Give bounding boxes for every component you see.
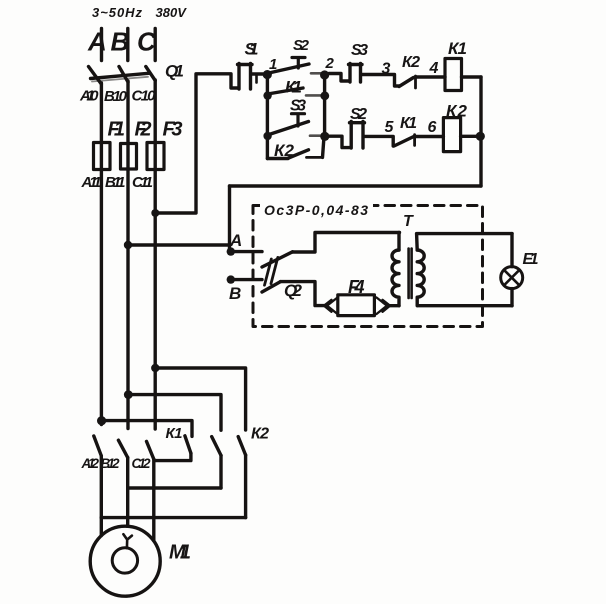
svg-text:Ос3Р-0,04-83: Ос3Р-0,04-83 (264, 202, 368, 218)
svg-text:S2: S2 (293, 37, 310, 54)
svg-text:В12: В12 (101, 456, 120, 471)
node crossover C junction (151, 364, 159, 372)
node bus junction (476, 132, 485, 141)
switch Q2 upper blade (262, 252, 293, 267)
wire Q2 to transformer primary top (293, 233, 400, 253)
pushbutton S2 blade (271, 64, 309, 73)
wire right bus (479, 77, 482, 186)
svg-text:F4: F4 (348, 277, 365, 297)
fuse F2 (121, 144, 137, 170)
coil K2 (443, 118, 460, 152)
wire crossover phase B to K2 middle pole (128, 395, 221, 431)
wire node 6 to coil K2 (415, 135, 444, 138)
node B phase line top (126, 29, 129, 61)
lighting unit dashed enclosure (253, 206, 483, 327)
wire S3 to K2 contact (362, 75, 399, 87)
contact K1 pole A blade (94, 436, 102, 456)
svg-text:А11: А11 (81, 174, 102, 191)
svg-text:F2: F2 (135, 119, 152, 141)
svg-text:К1: К1 (166, 425, 183, 442)
contact K2 NC blade (399, 78, 414, 87)
svg-text:М1: М1 (169, 542, 191, 564)
wire secondary bottom to lamp (418, 304, 512, 307)
svg-text:Q1: Q1 (165, 62, 184, 81)
contact K1 pole B blade (118, 440, 127, 457)
node 1a junction (263, 91, 271, 99)
svg-text:2: 2 (325, 55, 335, 72)
motor M1 star symbol (123, 534, 131, 548)
wire terminal B to switch Q2 (234, 278, 262, 281)
svg-text:4: 4 (429, 60, 439, 77)
svg-text:5: 5 (385, 119, 395, 136)
pushbutton S3 NO fixed stub (310, 134, 322, 137)
svg-text:6: 6 (428, 119, 437, 136)
fuse F3 (147, 143, 164, 170)
pushbutton S3 NO actuator (292, 114, 305, 126)
contact K1 self-hold fixed stub (306, 94, 321, 97)
svg-text:К1: К1 (448, 39, 467, 58)
node 1b junction (263, 132, 271, 140)
wire secondary top to lamp (417, 232, 512, 235)
svg-text:А: А (229, 231, 242, 250)
svg-text:С11: С11 (132, 174, 153, 191)
wire K2 aux riser (323, 138, 324, 157)
svg-text:С10: С10 (132, 88, 157, 105)
contact K2 middle pole blade (212, 437, 221, 456)
wire terminal A to switch Q2 (234, 250, 262, 253)
wire S1 to node 1 (252, 72, 264, 75)
contact K2 fixed tick (414, 76, 417, 88)
contact K1 pole C blade (147, 441, 154, 459)
wire control column node 1 (266, 75, 269, 159)
svg-text:К1: К1 (285, 78, 302, 97)
switch Q1 linkage bar (91, 73, 150, 78)
wire B12 to motor (126, 458, 129, 527)
pushbutton S3 NO blade (269, 122, 309, 135)
wire crossover phase A to K2 left pole (102, 421, 192, 437)
contact K2 aux fixed stub (307, 156, 323, 159)
svg-text:3~50Hz: 3~50Hz (92, 5, 143, 20)
svg-text:С12: С12 (132, 456, 151, 471)
svg-text:А12: А12 (81, 456, 100, 471)
pushbutton S2 actuator (292, 58, 305, 69)
pushbutton S2 fixed contact stub (311, 72, 322, 75)
transformer T core (409, 249, 412, 299)
svg-text:Т: Т (403, 213, 414, 230)
wire control bottom return (230, 184, 482, 187)
contact K1 NC blade (394, 137, 414, 146)
contact K2 left pole blade (185, 436, 191, 453)
svg-text:3: 3 (382, 61, 391, 78)
wire lamp bottom lead (510, 289, 513, 306)
wire drop to terminal A (228, 186, 231, 250)
svg-text:Q2: Q2 (284, 281, 303, 300)
svg-text:К2: К2 (251, 426, 269, 443)
fuse F4 body (338, 295, 375, 316)
svg-text:S2: S2 (350, 106, 367, 123)
wire Q2 to fuse F4 (281, 282, 327, 306)
transformer T secondary riser (415, 234, 419, 250)
wire crossover to phase B12 (128, 486, 221, 489)
node phase B tap junction (124, 241, 132, 249)
motor M1 inner circle (112, 548, 137, 573)
node control tap junction (151, 209, 159, 217)
pushbutton S1 actuator (238, 64, 253, 90)
pushbutton S2 NC actuator (350, 122, 365, 149)
svg-text:Е1: Е1 (523, 251, 539, 268)
transformer T secondary winding (417, 250, 424, 306)
node 2 junction (320, 70, 329, 79)
switch Q2 lower blade (262, 282, 281, 292)
coil K1 (445, 59, 462, 91)
contact K2 aux branch wire (267, 157, 288, 160)
svg-text:F1: F1 (108, 119, 126, 141)
svg-text:С: С (137, 27, 157, 57)
wire phase B vertical (126, 81, 129, 429)
wire K2 middle pole down (219, 455, 222, 488)
svg-text:В10: В10 (104, 88, 128, 105)
lamp E1 cross (504, 270, 519, 285)
node 2b junction (320, 132, 329, 141)
node terminal B (227, 275, 235, 283)
wire coil K2 to right bus (461, 135, 480, 138)
wire S2 NC to K1 contact (365, 136, 394, 146)
fuse F4 left chevrons (324, 298, 338, 315)
pushbutton S1 fixed contact tick (255, 75, 258, 83)
svg-text:К2: К2 (274, 141, 295, 160)
transformer T primary riser (397, 233, 400, 251)
svg-text:380V: 380V (156, 5, 188, 20)
wire control tap from phase C to S1 (155, 74, 238, 213)
node 2a junction (320, 91, 329, 100)
node crossover A junction (97, 416, 106, 425)
contact K1 self-hold blade (271, 88, 304, 94)
contact K2 right pole blade (238, 437, 245, 455)
node terminal A (227, 247, 235, 255)
wire C12 to motor (152, 459, 155, 540)
svg-text:1: 1 (269, 56, 277, 73)
svg-text:F3: F3 (163, 119, 183, 141)
wire node 2' to S2 NC (329, 136, 351, 147)
switch Q2 linkage (265, 257, 278, 285)
svg-text:А: А (87, 27, 107, 57)
switch Q1 pole B blade (119, 67, 128, 83)
node 1 junction (263, 70, 272, 79)
svg-text:А10: А10 (79, 88, 99, 105)
svg-text:К2: К2 (446, 102, 468, 121)
svg-text:В: В (111, 27, 130, 57)
svg-text:К1: К1 (400, 115, 417, 132)
svg-text:S3: S3 (351, 42, 368, 59)
transformer T primary winding (392, 250, 399, 306)
wire node 2 to S3 (329, 74, 350, 82)
wire phase C vertical (153, 80, 156, 429)
wire lamp top lead (510, 234, 513, 267)
wire K2 left pole to C12 (155, 453, 191, 460)
node A phase line top (100, 29, 103, 61)
svg-text:В: В (229, 284, 241, 303)
wire F4 to transformer primary bottom (388, 304, 399, 307)
svg-text:К2: К2 (402, 54, 420, 71)
switch Q1 linkage bar echo (92, 77, 148, 82)
wire phase B to terminal drop (128, 243, 230, 246)
wire phase A vertical (100, 83, 103, 425)
contact K2 aux blade (289, 150, 309, 158)
wire A12 to motor (100, 456, 103, 536)
svg-text:S3: S3 (290, 98, 306, 115)
contact K1 NC fixed tick (413, 135, 416, 146)
node C phase line top (153, 29, 156, 61)
motor M1 outer circle (90, 526, 160, 596)
pushbutton S3 actuator (NC contact) (349, 64, 363, 83)
wire K2 right pole down (244, 455, 247, 518)
lamp E1 (501, 267, 523, 289)
title background (260, 200, 373, 217)
fuse F4 right chevrons (377, 298, 391, 315)
switch Q1 pole A blade (89, 67, 102, 85)
fuse F1 (94, 143, 111, 170)
svg-text:В11: В11 (105, 174, 126, 191)
svg-text:S1: S1 (245, 40, 259, 59)
wire crossover phase C to K2 right pole (155, 368, 245, 430)
wire coil K1 to right bus (462, 75, 482, 78)
node crossover B junction (124, 390, 133, 399)
wire control column node 2 (323, 75, 326, 136)
wire crossover to phase A12 (101, 516, 245, 519)
wire node 4 to coil K1 (416, 75, 446, 78)
switch Q1 pole C blade (146, 67, 155, 81)
